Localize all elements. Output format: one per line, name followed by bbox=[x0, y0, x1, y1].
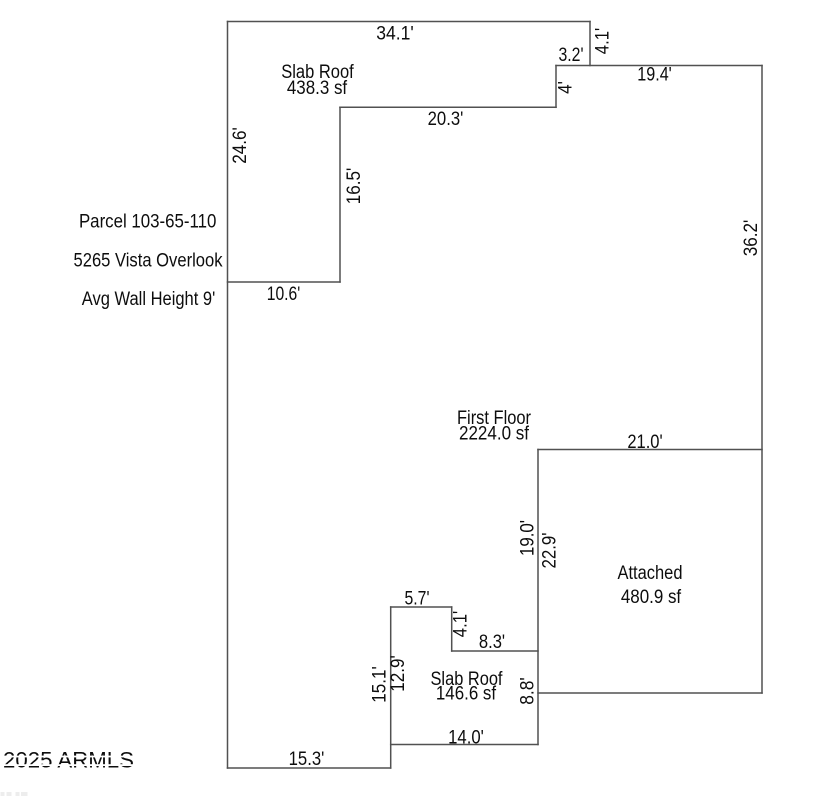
wall right edge 36.2' bbox=[761, 66, 763, 694]
svg-text:16.5': 16.5' bbox=[344, 168, 365, 205]
wall bottom 15.3' bbox=[228, 767, 391, 769]
svg-text:8.8': 8.8' bbox=[518, 677, 539, 705]
svg-text:438.3 sf: 438.3 sf bbox=[287, 78, 348, 99]
svg-text:15.3': 15.3' bbox=[289, 749, 325, 770]
wall 4' bbox=[555, 66, 557, 108]
svg-text:2224.0 sf: 2224.0 sf bbox=[459, 424, 530, 445]
wall 15.1'/12.9' bbox=[390, 607, 392, 768]
wall right step 4.1' bbox=[589, 22, 591, 66]
watermark fragment bottom bbox=[1, 792, 28, 796]
wall 16.5' bbox=[339, 107, 341, 282]
svg-text:4.1': 4.1' bbox=[593, 28, 614, 54]
svg-text:21.0': 21.0' bbox=[627, 432, 662, 453]
svg-text:10.6': 10.6' bbox=[267, 284, 301, 305]
svg-text:4.1': 4.1' bbox=[451, 611, 472, 637]
svg-text:24.6': 24.6' bbox=[230, 127, 251, 164]
wall top edge 34.1' bbox=[228, 21, 591, 23]
wall 14.0' bbox=[391, 744, 538, 746]
wall 21.0' bbox=[538, 449, 762, 451]
svg-text:34.1': 34.1' bbox=[376, 24, 414, 45]
svg-text:36.2': 36.2' bbox=[741, 220, 762, 257]
svg-text:2025 ARMLS: 2025 ARMLS bbox=[3, 748, 134, 773]
wall 8.3' bbox=[452, 650, 538, 652]
svg-text:5.7': 5.7' bbox=[405, 589, 430, 610]
wall left edge 24.6'+45.7' bbox=[227, 22, 229, 769]
wall 5.7' bbox=[391, 606, 452, 608]
wall 20.3' bbox=[340, 106, 556, 108]
svg-text:8.3': 8.3' bbox=[479, 632, 505, 653]
svg-text:20.3': 20.3' bbox=[428, 109, 464, 130]
svg-text:Attached: Attached bbox=[618, 563, 683, 584]
svg-text:5265 Vista Overlook: 5265 Vista Overlook bbox=[74, 251, 223, 272]
svg-text:146.6 sf: 146.6 sf bbox=[436, 684, 497, 705]
svg-text:Parcel 103-65-110: Parcel 103-65-110 bbox=[79, 212, 217, 233]
svg-text:19.0': 19.0' bbox=[518, 520, 539, 556]
wall 4.1' lower bbox=[451, 607, 453, 651]
watermark 2025 ARMLS bbox=[0, 748, 140, 773]
svg-text:14.0': 14.0' bbox=[448, 728, 484, 749]
wall attached bottom bbox=[538, 692, 762, 694]
wall 3.2' + 19.4' bbox=[556, 65, 762, 67]
svg-text:22.9': 22.9' bbox=[540, 533, 561, 569]
svg-text:480.9 sf: 480.9 sf bbox=[621, 587, 682, 608]
svg-text:19.4': 19.4' bbox=[637, 65, 672, 86]
wall 19.0'/22.9'/8.8' bbox=[537, 450, 539, 745]
wall 10.6' bbox=[228, 281, 341, 283]
svg-text:Avg Wall Height 9': Avg Wall Height 9' bbox=[82, 289, 216, 310]
svg-text:4': 4' bbox=[556, 81, 577, 94]
svg-text:3.2': 3.2' bbox=[559, 45, 584, 66]
svg-text:12.9': 12.9' bbox=[388, 655, 409, 692]
